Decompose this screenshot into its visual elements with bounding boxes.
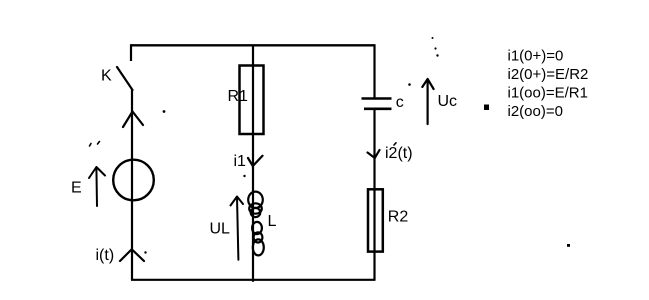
source E circle	[113, 160, 154, 201]
svg-text:K: K	[101, 68, 112, 85]
note equations	[508, 48, 589, 120]
current arrowhead up on left wire	[123, 112, 143, 128]
inductor L coil	[248, 192, 264, 256]
svg-text:i2(0+)=E/R2: i2(0+)=E/R2	[508, 66, 589, 83]
svg-text:i(t): i(t)	[96, 247, 115, 264]
svg-text:UL: UL	[210, 221, 231, 238]
current arrowhead up near i(t)	[120, 250, 144, 262]
resistor R2	[368, 189, 383, 251]
resistor R1	[240, 66, 264, 135]
svg-text:L: L	[268, 213, 277, 230]
svg-text:i1: i1	[234, 153, 247, 170]
svg-text:Uc: Uc	[438, 93, 458, 110]
arrow Uc	[422, 79, 433, 124]
wire top	[131, 44, 375, 46]
svg-text:i1(0+)=0: i1(0+)=0	[508, 48, 564, 65]
svg-text:i2(oo)=0: i2(oo)=0	[508, 103, 563, 120]
accent tick over i2	[394, 143, 396, 145]
switch K blade	[117, 67, 133, 90]
wire left	[131, 89, 133, 281]
svg-text:c: c	[396, 94, 404, 111]
svg-text:i1(oo)=E/R1: i1(oo)=E/R1	[508, 84, 588, 101]
svg-text:R1: R1	[228, 88, 249, 105]
arrow UL	[231, 197, 244, 260]
capacitor C plates	[362, 99, 392, 109]
current arrowhead down i2(t)	[368, 150, 380, 158]
arrow E	[89, 167, 105, 206]
stray ink marks	[144, 37, 570, 254]
wire right upper	[373, 44, 375, 97]
wire right lower	[373, 110, 375, 280]
current arrowhead down i1	[248, 156, 263, 166]
svg-text:E: E	[71, 180, 82, 197]
wire left top stub	[130, 44, 132, 61]
svg-text:i2(t): i2(t)	[385, 145, 413, 162]
wire bottom	[131, 279, 376, 281]
wire middle	[252, 45, 254, 282]
svg-text:R2: R2	[388, 209, 409, 226]
